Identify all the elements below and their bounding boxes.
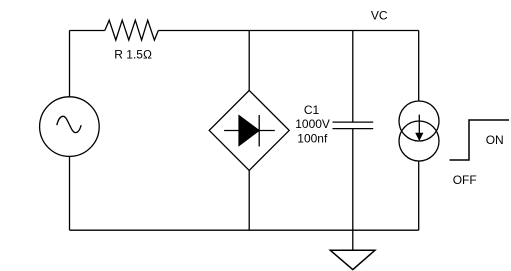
wire right lower <box>418 161 420 230</box>
wire left lower <box>69 156 71 230</box>
wire top-left segment <box>70 30 105 32</box>
wire capacitor bottom <box>352 129 354 231</box>
svg-text:OFF: OFF <box>453 173 477 187</box>
svg-text:ON: ON <box>486 133 504 147</box>
resistor R 1.5Ω <box>105 20 159 61</box>
svg-text:1000V: 1000V <box>295 117 330 131</box>
wire bridge bottom <box>248 170 250 230</box>
wire bridge top <box>248 31 250 91</box>
svg-text:100nf: 100nf <box>297 131 328 145</box>
wire capacitor top <box>352 31 354 123</box>
wire bottom rail <box>70 229 419 231</box>
wire top-right segment <box>158 30 418 32</box>
svg-text:R 1.5Ω: R 1.5Ω <box>114 47 152 61</box>
current source I1 <box>399 101 439 161</box>
wire right upper <box>418 31 420 102</box>
ground <box>330 250 375 269</box>
wire ground stub <box>352 230 354 250</box>
svg-text:VC: VC <box>371 8 388 22</box>
diode bridge D1 <box>209 90 289 170</box>
svg-text:C1: C1 <box>304 103 320 117</box>
wire left upper <box>69 31 71 97</box>
AC source V1 <box>40 97 100 157</box>
switch step waveform <box>450 120 510 160</box>
capacitor C1 1000V 100nf <box>295 103 373 145</box>
